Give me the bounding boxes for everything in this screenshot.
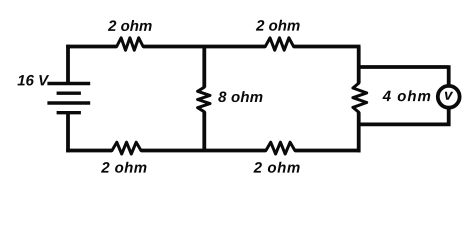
label 2 ohm (bottom-left resistor R5) (101, 162, 146, 173)
wire top-right segment (R2 to node B) (294, 45, 361, 49)
wire bottom-right segment (R6 to right vertical) (295, 149, 361, 153)
wire bottom-left segment (battery - to R5) (66, 149, 112, 153)
label v (voltmeter symbol) (445, 92, 453, 100)
wire top-middle segment (R1 to node A) (143, 45, 265, 49)
wire voltmeter branch top (node B to voltmeter) (359, 65, 449, 86)
resistor R5 2 ohm (bottom-left) (112, 142, 141, 154)
wire left vertical battery bottom lead (66, 113, 70, 153)
wire bottom-middle segment (R5 to bottom node) (141, 149, 266, 153)
label 16 V (battery value) (17, 75, 49, 86)
voltmeter M1 (circle body) (438, 86, 460, 108)
wire top-left segment (battery + to R1) (66, 45, 117, 49)
resistor R4 4 ohm (right vertical) (353, 83, 367, 112)
battery V1 16 V (plates long-short-long-short) (47, 84, 90, 113)
wire middle vertical top lead (node A down to R3) (202, 47, 206, 88)
resistor R1 2 ohm (top-left) (117, 38, 143, 50)
label 2 ohm (top-right resistor R2) (256, 20, 300, 31)
resistor R6 2 ohm (bottom-right) (266, 142, 295, 154)
label 2 ohm (top-left resistor R1) (108, 20, 152, 31)
label 8 ohm (middle resistor R3) (218, 91, 262, 102)
wire right vertical top lead (node B down to R4) (357, 47, 361, 84)
wire middle vertical bottom lead (R3 to bottom node) (202, 112, 206, 151)
wire right vertical bottom lead (R4 to bottom wire) (357, 112, 361, 152)
label 4 ohm (right resistor R4) (382, 90, 430, 101)
label 2 ohm (bottom-right resistor R6) (253, 162, 299, 173)
wire left vertical battery top lead (66, 45, 70, 84)
resistor R3 8 ohm (middle vertical) (198, 87, 210, 112)
resistor R2 2 ohm (top-right) (265, 38, 293, 50)
wire voltmeter branch bottom (voltmeter to right vertical) (359, 108, 449, 127)
